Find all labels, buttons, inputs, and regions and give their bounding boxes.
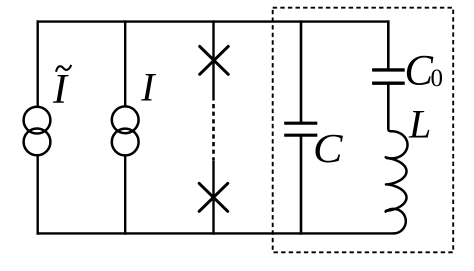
wire C0 to inductor	[387, 83, 390, 128]
svg-text:L: L	[408, 102, 431, 147]
wire junction branch lower solid	[212, 161, 214, 235]
current source I (two overlapping circles)	[112, 106, 139, 133]
label I-tilde	[52, 65, 71, 113]
dashed box (enclosing resonator)	[273, 8, 454, 253]
wire capacitor C branch lower	[300, 135, 303, 234]
wire capacitor C branch upper	[300, 20, 303, 123]
svg-text:I: I	[140, 65, 156, 110]
svg-text:C: C	[313, 125, 343, 171]
current source I-tilde (two overlapping circles)	[24, 107, 51, 134]
capacitor C plates	[284, 123, 317, 135]
wire C0 branch upper	[387, 20, 390, 69]
svg-text:0: 0	[431, 65, 444, 92]
capacitor C0 plates	[372, 70, 405, 83]
svg-text:I: I	[52, 67, 69, 113]
wire bottom	[37, 232, 394, 234]
wire top	[37, 20, 390, 22]
wire left branch lower	[37, 156, 39, 235]
wire junction branch dotted (array ellipsis)	[212, 104, 215, 161]
josephson junction X1	[200, 46, 229, 74]
wire second branch lower	[124, 156, 126, 235]
wire second branch upper	[124, 20, 126, 106]
wire junction branch upper solid	[212, 20, 214, 100]
wire left branch upper	[37, 20, 39, 106]
josephson junction X2	[199, 183, 228, 211]
inductor L (coil)	[388, 128, 392, 132]
label C0	[405, 48, 444, 95]
